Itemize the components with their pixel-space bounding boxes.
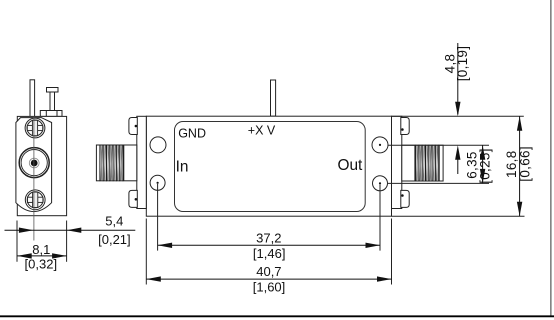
extension 40,7 left [145, 219, 147, 285]
right screw head bottom [401, 190, 409, 207]
dimension 16,8 line [519, 116, 521, 216]
dimension 40,7 line [146, 278, 391, 280]
output SMA connector (main view) [402, 145, 443, 182]
extension: connector top [388, 144, 489, 146]
feedthrough bolt shaft (left view) [50, 92, 55, 111]
svg-text:[0,19]: [0,19] [455, 46, 470, 82]
svg-text:[1,46]: [1,46] [253, 246, 286, 261]
right end plate [392, 116, 402, 208]
label plate (rounded rect) [175, 122, 366, 212]
extension: body top to right [392, 115, 524, 117]
left screw head top [129, 118, 137, 135]
svg-text:5,4: 5,4 [105, 213, 123, 228]
extension: connector bottom [388, 182, 489, 184]
extension 40,7 right [391, 219, 393, 285]
center line (left view) [33, 116, 35, 240]
svg-text:[0,25]: [0,25] [478, 148, 493, 184]
screw hole bottom-left [150, 175, 165, 190]
frame right border [550, 0, 552, 316]
feedthrough bolt head (left view) [47, 88, 59, 93]
bottom screw (left view) [25, 190, 45, 210]
leader right bottom screw [379, 185, 381, 251]
extension 8,1 left [16, 221, 18, 262]
svg-text:37,2: 37,2 [256, 230, 281, 245]
dimension 5,4 line [5, 229, 136, 231]
screw hole top-right [372, 137, 388, 153]
wire pin (main view) [271, 80, 276, 116]
wire pin (left view) [30, 80, 35, 117]
svg-text:[0,21]: [0,21] [98, 232, 131, 247]
leader left bottom screw [157, 184, 159, 251]
left screw head bottom [129, 190, 137, 207]
dimension 6,35 line [482, 145, 484, 183]
feedthrough bolt base (left view) [40, 111, 62, 117]
dimension 4,8 line [457, 43, 459, 115]
dimension 8,1 line [17, 255, 67, 257]
coax connector face (left view) [19, 148, 49, 178]
svg-text:In: In [176, 159, 189, 176]
right screw head top [401, 118, 409, 135]
svg-text:[0,66]: [0,66] [517, 146, 532, 182]
svg-text:40,7: 40,7 [256, 264, 281, 279]
left end plate [137, 116, 147, 208]
svg-text:Out: Out [338, 157, 364, 174]
frame bottom border [0, 315, 554, 317]
dimension 37,2 line [158, 244, 380, 246]
top screw (left view) [25, 118, 45, 138]
svg-text:[1,60]: [1,60] [253, 280, 286, 295]
left view body [17, 116, 66, 215]
left view flange plate [16, 118, 52, 212]
extension: body bottom to right [392, 215, 525, 217]
screw hole top-left [150, 137, 166, 153]
extension 8,1 right [66, 221, 68, 262]
svg-text:GND: GND [178, 126, 206, 140]
main body [146, 116, 391, 216]
svg-text:8,1: 8,1 [32, 242, 50, 257]
input SMA connector (main view) [96, 145, 136, 182]
svg-text:+X V: +X V [248, 124, 276, 138]
svg-text:[0,32]: [0,32] [25, 257, 58, 272]
screw hole bottom-right [373, 176, 388, 191]
